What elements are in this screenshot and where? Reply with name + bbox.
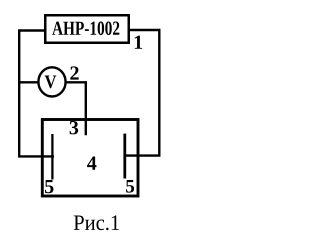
label 1 bbox=[135, 36, 142, 49]
caption Рис.1 bbox=[74, 215, 84, 229]
wire: voltmeter right side over and down to center electrode 3 bbox=[66, 82, 86, 135]
wire: device box left side to left rail down to left electrode bbox=[19, 31, 54, 157]
label 2 bbox=[70, 66, 78, 79]
left electrode bbox=[51, 134, 53, 180]
device box АНР-1002 bbox=[45, 15, 129, 43]
label 3 bbox=[70, 121, 79, 134]
wire: branch from left rail to voltmeter bbox=[19, 81, 39, 83]
right electrode bbox=[123, 134, 126, 179]
label 5 right bbox=[126, 180, 134, 193]
chamber box bbox=[42, 120, 138, 197]
label 4 bbox=[87, 157, 96, 170]
wire: device box right side to right rail down to right electrode bbox=[126, 30, 159, 156]
label 5 left bbox=[45, 180, 53, 193]
voltmeter V bbox=[38, 67, 65, 96]
